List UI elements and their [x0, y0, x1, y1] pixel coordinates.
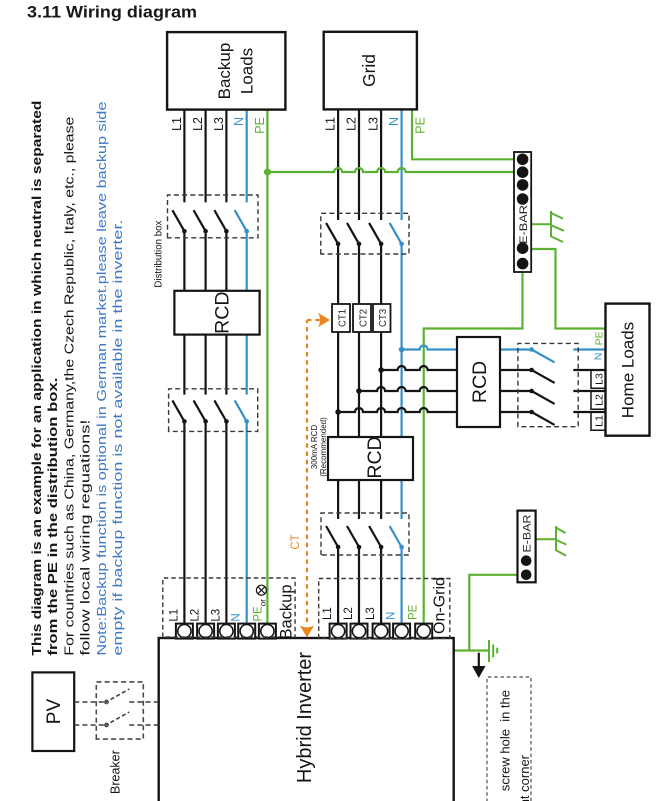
svg-text:CT: CT	[290, 534, 302, 549]
switch backup-2 L1	[172, 400, 186, 423]
wire backup L1 segment inverter-to-switch	[183, 421, 185, 631]
svg-text:Breaker: Breaker	[109, 750, 123, 794]
CT arrowhead at CT1	[318, 313, 330, 327]
wire grid N segment RCD-to-switch	[401, 244, 403, 437]
wire grid L2 segment inverter-to-switch	[358, 547, 360, 631]
wire PV wire 1 lower	[129, 701, 159, 703]
E-BAR1 terminal dot 3	[517, 179, 529, 191]
box grid breaker group 1 (dashed)	[321, 213, 409, 254]
box screw hole note (dashed)	[487, 677, 531, 801]
svg-text:L2: L2	[345, 117, 359, 131]
wire home-loads L1 RCD-to-switch	[500, 411, 532, 413]
wire home-loads tap L3 (hops)	[381, 366, 457, 370]
wire backup L2 segment inverter-to-switch	[205, 421, 207, 631]
wire backup N segment switch-to-RCD	[246, 335, 248, 395]
switch grid-2 L1	[326, 526, 340, 549]
terminal backup L3	[218, 624, 235, 639]
box E-BAR1	[514, 152, 531, 272]
wire grid L2 segment switch-to-grid	[358, 109, 360, 220]
svg-text:empty if backup function is no: empty if backup function is not availabl…	[110, 220, 125, 656]
switch grid-2 L3	[369, 526, 383, 549]
box Hybrid Inverter	[159, 638, 454, 801]
wire inverter PE to ground	[454, 649, 489, 651]
switch home-loads L2	[529, 389, 554, 404]
terminal backup L2	[197, 624, 214, 639]
wire backup L2 segment switch-to-RCD	[205, 335, 207, 395]
ground symbol at E-BAR2	[536, 526, 567, 556]
ground symbol at inverter	[489, 640, 497, 662]
svg-text:For countries such as China, G: For countries such as China, Germany,the…	[61, 117, 76, 656]
wire backup L1 segment RCD-to-switch	[183, 231, 185, 291]
svg-text:E-BAR: E-BAR	[518, 205, 530, 244]
svg-text:L3: L3	[210, 609, 222, 622]
svg-text:(Recommended): (Recommended)	[319, 417, 328, 477]
junction home-loads tap L3	[378, 367, 384, 373]
wire home-loads tap L2 (hops)	[359, 387, 457, 391]
wire grid L1 segment switch-to-grid	[337, 109, 339, 220]
E-BAR1 terminal dot 6	[517, 258, 529, 270]
wire E-BAR to home loads PE	[531, 249, 605, 329]
svg-text:L2: L2	[190, 609, 202, 622]
wire PV wire 1 upper	[74, 701, 105, 703]
switch grid-1 L3	[369, 223, 383, 246]
breaker pivot hook on PV wire 2	[105, 723, 109, 727]
switch backup-1 N	[235, 210, 249, 233]
svg-text:L1: L1	[324, 117, 338, 131]
switch home-loads N	[529, 347, 554, 362]
svg-text:RCD: RCD	[364, 436, 386, 478]
terminal on-grid L2	[351, 624, 368, 639]
svg-text:PE: PE	[252, 606, 264, 622]
switch grid-1 L1	[326, 223, 340, 246]
CT arrowhead at inverter	[300, 625, 314, 637]
terminal backup L1	[176, 624, 193, 639]
wire grid L3 segment switch-to-RCD	[380, 480, 382, 519]
svg-text:L2: L2	[191, 117, 205, 131]
title	[0, 0, 662, 30]
svg-text:300mA RCD: 300mA RCD	[310, 425, 319, 470]
switch backup-1 L3	[214, 210, 228, 233]
wire grid N segment switch-to-RCD	[401, 480, 403, 519]
switch backup-2 N	[235, 400, 249, 423]
svg-text:Loads: Loads	[238, 48, 257, 94]
terminal backup PE	[259, 624, 276, 639]
wire backup L3 segment RCD-to-switch	[225, 231, 227, 291]
switch home-loads L3	[529, 368, 554, 383]
svg-text:3.11 Wiring diagram: 3.11 Wiring diagram	[27, 4, 197, 22]
wire home-loads L2 switch-to-loads	[573, 390, 605, 392]
svg-text:Grid: Grid	[359, 54, 379, 87]
wire home-loads L3 switch-to-loads	[573, 369, 605, 371]
box Breaker (dashed)	[96, 682, 143, 739]
switch backup-1 L2	[194, 210, 208, 233]
switch grid-1 N	[390, 223, 404, 246]
box RCD home loads	[457, 337, 500, 427]
wire home-loads tap L1 (hops)	[338, 408, 457, 412]
box E-BAR2	[518, 511, 536, 583]
wire backup L3 segment switch-to-loads	[225, 110, 227, 203]
breaker pivot hook on PV wire 1	[105, 700, 109, 704]
breaker blade on PV wire 1	[105, 689, 129, 703]
ground symbol at E-BAR1	[531, 211, 564, 242]
wire home-loads N RCD-to-switch	[500, 348, 532, 350]
svg-text:follow local wiring reguations: follow local wiring reguations!	[78, 420, 93, 656]
svg-text:N: N	[386, 612, 398, 620]
breaker blade on PV wire 2	[105, 712, 129, 726]
wire on-grid PE from E-BAR to inverter PE terminal	[424, 264, 523, 631]
svg-text:E-BAR: E-BAR	[521, 514, 533, 552]
E-BAR2 terminal dot 2	[521, 570, 532, 581]
svg-text:L3: L3	[212, 117, 226, 131]
svg-text:Backup: Backup	[278, 584, 296, 639]
box CT1	[332, 304, 350, 332]
terminal backup N	[238, 624, 255, 639]
svg-text:Note:Backup function is option: Note:Backup function is optional in Germ…	[94, 102, 109, 656]
svg-text:PV: PV	[44, 699, 65, 725]
wire grid L1 segment RCD-to-switch	[337, 244, 339, 437]
wire grid L1 segment inverter-to-switch	[337, 547, 339, 631]
svg-text:Home Loads: Home Loads	[619, 322, 638, 418]
wire backup N segment inverter-to-switch	[246, 421, 248, 631]
box CT3	[373, 304, 391, 332]
wire PV wire 2 lower	[129, 724, 159, 726]
wire backup L2 segment switch-to-loads	[205, 110, 207, 203]
junction home-loads tap L2	[356, 388, 362, 394]
wire backup L2 segment RCD-to-switch	[205, 231, 207, 291]
E-BAR1 terminal dot 4	[517, 193, 529, 205]
wire grid L3 segment switch-to-grid	[380, 109, 382, 220]
box backup breaker group 2 (dashed)	[169, 389, 258, 432]
svg-text:N: N	[387, 117, 401, 126]
svg-text:CT1: CT1	[338, 309, 349, 327]
svg-text:N: N	[593, 353, 605, 361]
switch backup-2 L2	[194, 400, 208, 423]
svg-text:L1: L1	[168, 609, 180, 622]
wire grid N segment inverter-to-switch	[401, 547, 403, 631]
svg-text:PE: PE	[408, 604, 420, 620]
junction home-loads tap N	[399, 347, 405, 353]
wire backup L1 segment switch-to-loads	[183, 110, 185, 203]
wire home-loads L2 RCD-to-switch	[500, 390, 532, 392]
junction home-loads tap L1	[335, 409, 341, 415]
switch home-loads L1	[529, 410, 554, 425]
terminal on-grid PE	[415, 624, 432, 639]
svg-text:This diagram is an example for: This diagram is an example for an applic…	[29, 101, 44, 656]
CT sense dashed line vertical	[307, 319, 321, 321]
box CT2	[353, 304, 371, 332]
switch backup-1 L1	[172, 210, 186, 233]
wire ground branch to E-BAR2	[469, 575, 526, 651]
svg-text:Backup: Backup	[215, 43, 234, 100]
wire grid L3 segment RCD-to-switch	[380, 244, 382, 437]
box Backup Loads	[167, 32, 285, 110]
symbol circled-x	[256, 585, 266, 595]
svg-text:L1: L1	[594, 415, 606, 427]
box backup breaker group 1 (dashed)	[168, 195, 259, 238]
wire home-loads N switch-to-loads	[573, 348, 605, 350]
svg-text:Distribution box: Distribution box	[153, 220, 165, 288]
home-loads terminal cell L3	[591, 370, 606, 388]
svg-text:RCD: RCD	[469, 361, 491, 403]
wire backup L3 segment inverter-to-switch	[225, 421, 227, 631]
wire grid L1 segment switch-to-RCD	[337, 480, 339, 519]
switch backup-2 L3	[214, 400, 228, 423]
E-BAR1 terminal dot 1	[517, 154, 529, 166]
wire home-loads L3 RCD-to-switch	[500, 369, 532, 371]
box RCD backup	[174, 291, 259, 335]
switch grid-2 N	[390, 526, 404, 549]
wire backup L3 segment switch-to-RCD	[225, 335, 227, 395]
E-BAR1 terminal dot 2	[517, 166, 529, 178]
switch grid-2 L2	[347, 526, 361, 549]
svg-text:or: or	[258, 599, 267, 606]
svg-text:PE: PE	[594, 331, 606, 345]
svg-text:L2: L2	[594, 394, 606, 406]
wire grid N segment switch-to-grid	[401, 109, 403, 220]
svg-text:L3: L3	[594, 373, 606, 385]
E-BAR1 terminal dot 5	[517, 242, 529, 254]
wire backup N segment switch-to-loads	[246, 110, 248, 203]
terminal on-grid N	[393, 624, 410, 639]
svg-text:CT2: CT2	[359, 309, 370, 327]
svg-text:CT3: CT3	[378, 309, 389, 327]
arrow to screw hole	[472, 653, 485, 678]
box backup terminals (dashed)	[163, 578, 295, 637]
switch grid-1 L2	[347, 223, 361, 246]
svg-text:On-Grid: On-Grid	[432, 577, 449, 634]
svg-text:L1: L1	[170, 117, 184, 131]
box home-loads breaker group (dashed)	[518, 343, 578, 426]
box Grid	[324, 32, 417, 110]
terminal on-grid L1	[330, 624, 347, 639]
wire home-loads tap N (hop)	[402, 346, 457, 350]
svg-text:RCD: RCD	[212, 292, 234, 334]
svg-text:right corner: right corner	[517, 754, 532, 801]
wire backup N segment RCD-to-switch	[246, 231, 248, 291]
svg-text:L1: L1	[322, 607, 334, 620]
wire grid L2 segment RCD-to-switch	[358, 244, 360, 437]
wire home-loads L1 switch-to-loads	[573, 411, 605, 413]
wire PV wire 2 upper	[74, 724, 105, 726]
svg-text:Hybrid Inverter: Hybrid Inverter	[294, 652, 316, 783]
svg-text:screw hole in the: screw hole in the	[498, 690, 513, 791]
CT sense dashed line horizontal	[306, 320, 308, 622]
box Home Loads	[606, 304, 650, 436]
wire backup PE down to E-BAR (hops over grid wires)	[267, 168, 522, 172]
junction backup PE tee	[264, 169, 271, 176]
box on-grid terminals (dashed)	[319, 579, 450, 639]
svg-text:PE: PE	[253, 117, 267, 134]
terminal on-grid L3	[373, 624, 390, 639]
svg-text:from the PE in the distributio: from the PE in the distribution box.	[45, 378, 60, 656]
box PV	[32, 672, 74, 751]
wire grid PE to E-BAR	[412, 109, 523, 159]
wire backup PE inverter-to-backup-loads	[266, 110, 268, 631]
svg-text:N: N	[231, 613, 243, 621]
home-loads terminal cell L2	[591, 391, 606, 409]
wire grid L2 segment switch-to-RCD	[358, 480, 360, 519]
box grid breaker group 2 (dashed)	[321, 513, 409, 555]
svg-text:N: N	[232, 117, 246, 126]
svg-text:L3: L3	[367, 117, 381, 131]
wire grid L3 segment inverter-to-switch	[380, 547, 382, 631]
svg-text:L2: L2	[343, 607, 355, 620]
svg-text:L3: L3	[365, 607, 377, 620]
home-loads terminal cell L1	[591, 412, 606, 430]
svg-text:PE: PE	[414, 117, 428, 134]
box RCD 300mA	[328, 437, 413, 480]
E-BAR2 terminal dot 1	[521, 555, 532, 566]
wire backup L1 segment switch-to-RCD	[183, 335, 185, 395]
